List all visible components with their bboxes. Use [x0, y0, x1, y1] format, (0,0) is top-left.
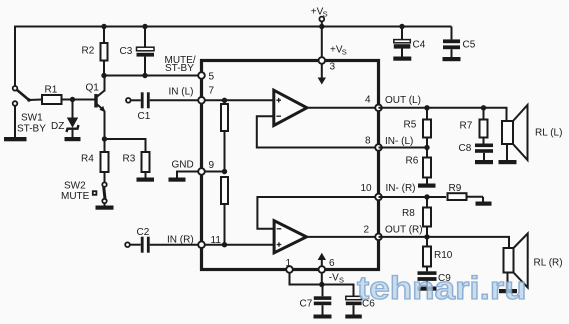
svg-text:R8: R8 — [402, 208, 415, 219]
svg-text:2: 2 — [364, 225, 370, 236]
capacitor C3 — [144, 27, 146, 48]
svg-text:6: 6 — [329, 258, 335, 269]
svg-text:R3: R3 — [123, 154, 136, 165]
node top rail C4 junction — [399, 24, 404, 29]
svg-text:ST-BY: ST-BY — [17, 124, 46, 135]
ground SW2 — [96, 206, 114, 210]
pin 11 — [198, 241, 205, 248]
svg-text:C3: C3 — [120, 46, 133, 57]
ground SW1 — [4, 137, 27, 141]
wire emitter branch to R3 — [105, 139, 146, 152]
svg-text:1: 1 — [286, 258, 292, 269]
+Vs supply terminal — [319, 17, 324, 22]
svg-text:ST-BY: ST-BY — [165, 63, 194, 74]
wire GND internal — [202, 171, 225, 173]
svg-text:IN (R): IN (R) — [167, 235, 194, 246]
capacitor C1 — [126, 98, 131, 103]
switch SW1 — [13, 86, 18, 91]
wire IN- (L) — [379, 147, 428, 149]
svg-text:SW2: SW2 — [64, 181, 86, 192]
pin 2 — [375, 234, 382, 241]
resistor R7 — [483, 108, 485, 120]
ground GND pin 9 — [177, 172, 200, 178]
svg-text:11: 11 — [211, 235, 222, 246]
svg-text:C5: C5 — [463, 40, 476, 51]
speaker RL (R) — [504, 248, 514, 273]
svg-text:SW1: SW1 — [21, 113, 43, 124]
capacitor C7 — [314, 296, 332, 300]
capacitor C5 — [451, 27, 453, 40]
pin 4 — [375, 105, 382, 112]
wire top supply rail — [15, 27, 452, 89]
svg-text:MUTE: MUTE — [61, 191, 90, 202]
svg-text:C7: C7 — [300, 299, 313, 310]
node R5/R6 junction — [424, 145, 429, 150]
op-amp U1B (right channel) — [274, 221, 306, 253]
svg-text:R6: R6 — [406, 156, 419, 167]
wire IN- (R) — [379, 196, 447, 198]
ground C5 — [443, 57, 461, 61]
node top rail +Vs junction — [319, 24, 324, 29]
node top rail R2 junction — [101, 24, 106, 29]
svg-text:OUT (R): OUT (R) — [385, 225, 423, 236]
wire OUT (L) — [379, 108, 507, 121]
resistor R2 — [103, 27, 105, 44]
svg-text:8: 8 — [365, 136, 371, 147]
wire pins 1,6 to -Vs bus — [290, 271, 354, 296]
svg-text:7: 7 — [209, 86, 215, 97]
svg-text:C1: C1 — [138, 111, 151, 122]
svg-text:C2: C2 — [137, 227, 150, 238]
ground DZ — [65, 137, 81, 141]
svg-text:-V: -V — [329, 273, 339, 284]
svg-text:S: S — [339, 276, 344, 285]
svg-text:R5: R5 — [404, 120, 417, 131]
transistor Q1 — [94, 94, 97, 108]
svg-text:R10: R10 — [434, 250, 453, 261]
node R1/DZ/Q1 base junction — [70, 97, 75, 102]
svg-text:Q1: Q1 — [86, 83, 100, 94]
ground RL (R) — [499, 289, 517, 293]
node C3 junction — [142, 73, 147, 78]
resistor R4 — [101, 152, 109, 172]
ground C7 — [314, 315, 332, 319]
ground C8 — [475, 160, 493, 164]
svg-text:R4: R4 — [81, 154, 94, 165]
wire op-amp A feedback to pin 8 — [257, 116, 377, 147]
wire pin 11 to op-amp B + input — [202, 244, 275, 246]
svg-text:R9: R9 — [449, 183, 462, 194]
capacitor C4 — [401, 27, 403, 40]
capacitor C2 — [125, 242, 130, 247]
svg-text:IN- (R): IN- (R) — [386, 183, 416, 194]
ground R9 — [476, 202, 492, 206]
pin 8 — [375, 144, 382, 151]
ground C4 — [393, 57, 411, 61]
svg-text:RL (R): RL (R) — [534, 258, 563, 269]
zener diode DZ — [72, 100, 74, 118]
internal resistor upper — [222, 98, 227, 103]
ground RL (L) — [499, 160, 517, 164]
wire mute/st-by row to pin 5 — [104, 75, 200, 77]
node R2/Q1 collector junction — [101, 73, 106, 78]
wire op-amp A output to pin 4 — [307, 107, 377, 109]
resistor R1 — [29, 99, 42, 102]
svg-text:DZ: DZ — [51, 121, 64, 132]
wire pin 7 to op-amp A + input — [202, 99, 274, 101]
pin 7 — [198, 97, 205, 104]
pin 10 — [375, 194, 382, 201]
resistor R8 — [426, 197, 428, 208]
svg-text:R7: R7 — [460, 121, 473, 132]
svg-text:S: S — [323, 10, 328, 19]
capacitor C6 — [346, 296, 362, 299]
svg-text:9: 9 — [209, 160, 215, 171]
resistor R5 — [426, 108, 428, 120]
internal resistor lower — [221, 177, 228, 204]
watermark tehnari.ru — [357, 271, 527, 306]
svg-text:GND: GND — [172, 160, 194, 171]
svg-text:R2: R2 — [82, 46, 95, 57]
svg-text:S: S — [342, 48, 347, 57]
arrow pin 3 current — [321, 62, 323, 78]
svg-text:3: 3 — [330, 62, 336, 73]
capacitor C8 — [475, 144, 493, 148]
IC U1 body — [202, 61, 379, 270]
svg-text:OUT (L): OUT (L) — [385, 95, 421, 106]
wire OUT (R) — [379, 237, 510, 248]
arrow pin 6 current — [321, 260, 323, 269]
speaker RL (L) — [502, 121, 513, 144]
ground C9 — [418, 287, 437, 291]
svg-text:R1: R1 — [45, 85, 58, 96]
pin 9 — [198, 168, 205, 175]
op-amp U1A (left channel) — [274, 90, 307, 125]
ground R3 — [137, 178, 155, 182]
ground C6 — [345, 315, 362, 319]
resistor R10 — [426, 237, 428, 247]
resistor R3 — [142, 152, 150, 172]
wire op-amp B feedback to pin 10 — [257, 197, 377, 229]
capacitor C9 — [418, 271, 437, 275]
ground R6 — [418, 184, 436, 188]
resistor R6 — [423, 158, 431, 178]
terminal MUTE — [93, 191, 97, 195]
svg-text:IN- (L): IN- (L) — [385, 136, 413, 147]
svg-text:C4: C4 — [413, 40, 426, 51]
node top rail C3 junction — [142, 24, 147, 29]
pin 1 — [286, 266, 293, 273]
switch SW2 — [102, 182, 106, 186]
svg-text:C8: C8 — [459, 143, 472, 154]
svg-text:4: 4 — [365, 95, 371, 106]
svg-text:RL (L): RL (L) — [535, 128, 562, 139]
pin 5 — [198, 72, 205, 79]
pin 6 — [319, 266, 326, 273]
svg-text:5: 5 — [209, 72, 215, 83]
resistor R9 — [448, 193, 467, 200]
pin 3 — [319, 57, 326, 64]
wire +Vs terminal to pin 3 — [321, 21, 323, 60]
svg-text:10: 10 — [361, 183, 373, 194]
node Q1 emitter / R3 branch junction — [102, 136, 107, 141]
svg-text:IN (L): IN (L) — [169, 87, 194, 98]
svg-text:tehnari.ru: tehnari.ru — [357, 271, 527, 306]
wire op-amp B output to pin 2 — [307, 236, 378, 238]
